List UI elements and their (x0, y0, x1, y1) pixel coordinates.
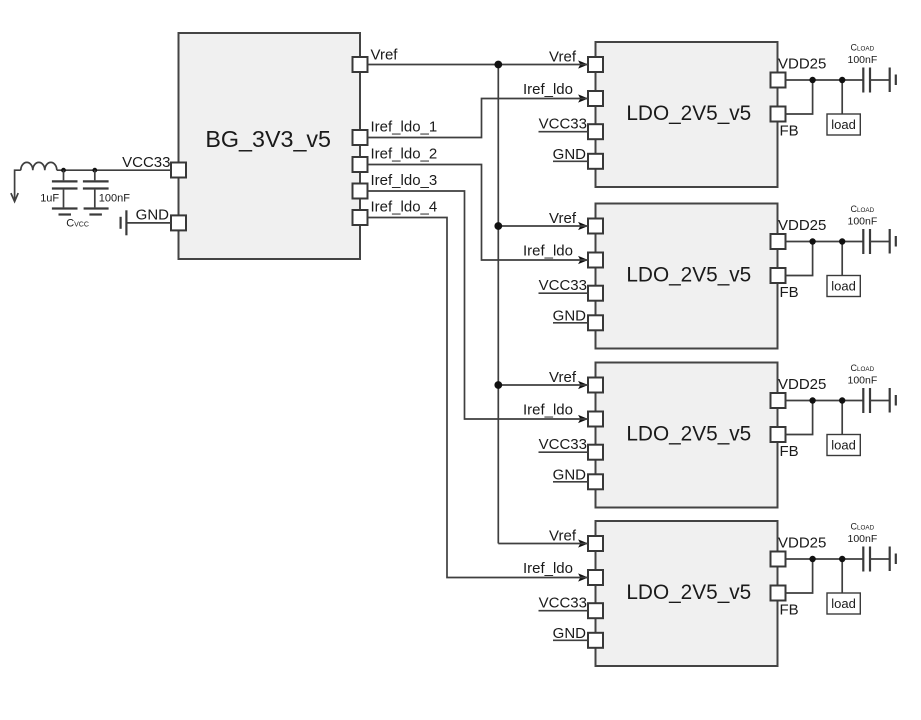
svg-text:Iref_ldo_1: Iref_ldo_1 (371, 119, 438, 136)
svg-text:VCC33: VCC33 (122, 154, 170, 171)
svg-text:1uF: 1uF (40, 193, 59, 205)
svg-text:BG_3V3_v5: BG_3V3_v5 (205, 126, 331, 152)
svg-text:100nF: 100nF (99, 193, 130, 205)
svg-text:Iref_ldo_4: Iref_ldo_4 (371, 199, 438, 216)
svg-text:Iref_ldo_3: Iref_ldo_3 (371, 172, 438, 189)
svg-text:Iref_ldo_2: Iref_ldo_2 (371, 146, 438, 163)
svg-text:GND: GND (136, 207, 170, 224)
svg-text:Vref: Vref (371, 47, 399, 64)
svg-text:CVCC: CVCC (66, 218, 89, 230)
